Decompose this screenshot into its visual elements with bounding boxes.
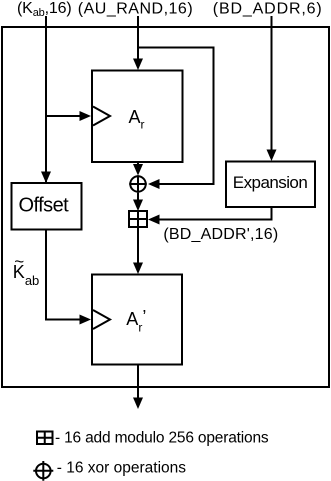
wire BD_ADDR input (271, 16, 273, 150)
arrowhead into Ar' chevron (80, 315, 92, 325)
block Ar (92, 71, 183, 163)
arrowhead into Ar top (133, 59, 143, 71)
wire AU_RAND branch to xor (138, 48, 214, 185)
wire Ar' output (SRES) (137, 365, 139, 399)
arrowhead into Expansion top (267, 150, 277, 162)
legend add-mod symbol (36, 431, 54, 446)
svg-text:(AU_RAND,16): (AU_RAND,16) (78, 1, 193, 18)
chevron Ar clock input (93, 107, 110, 126)
svg-text:Expansion: Expansion (233, 173, 308, 192)
svg-text:- 16 add modulo 256 operations: - 16 add modulo 256 operations (55, 430, 269, 447)
xor X1 (129, 175, 147, 193)
wire Ar output to xor (137, 162, 139, 165)
wire AU_RAND input (137, 16, 139, 59)
arrowhead into Ar chevron (80, 111, 92, 121)
svg-text:Offset: Offset (19, 195, 70, 217)
wire add output to Ar' (137, 227, 139, 263)
node label K~ab (13, 252, 39, 288)
block Ar' (92, 275, 182, 365)
legend xor symbol (33, 461, 53, 481)
arrowhead into Offset (41, 172, 51, 184)
block Offset (12, 183, 82, 230)
arrowhead into xor top (133, 164, 143, 176)
wire K_ab input (45, 16, 47, 183)
arrowhead output (133, 398, 143, 410)
add-mod box M1 (129, 211, 147, 227)
arrowhead into add top (133, 200, 143, 212)
svg-text:- 16 xor operations: - 16 xor operations (57, 460, 186, 477)
wire Expansion output to add (159, 207, 272, 220)
wire xor to add (137, 193, 139, 201)
wire Offset output to Ar' (46, 230, 80, 320)
arrowhead into xor right (148, 179, 160, 189)
block Expansion (226, 162, 315, 208)
svg-text:(BD_ADDR',16): (BD_ADDR',16) (163, 226, 278, 243)
chevron Ar' clock input (93, 310, 110, 329)
wire K_ab branch to Ar (46, 115, 80, 117)
arrowhead into Ar' top (133, 263, 143, 275)
svg-text:(BD_ADDR,6): (BD_ADDR,6) (213, 1, 323, 18)
outer box (2, 27, 329, 387)
svg-text:(Kab,16): (Kab,16) (17, 0, 72, 19)
arrowhead into add right (148, 215, 160, 225)
